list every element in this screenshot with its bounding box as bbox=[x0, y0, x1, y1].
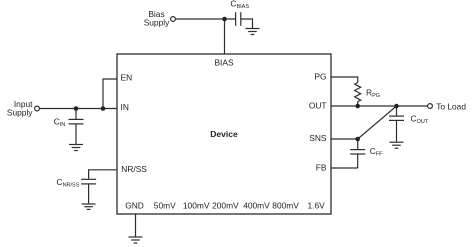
svg-text:IN: IN bbox=[121, 102, 129, 112]
svg-text:200mV: 200mV bbox=[212, 201, 239, 211]
svg-text:50mV: 50mV bbox=[154, 201, 176, 211]
svg-text:To Load: To Load bbox=[436, 101, 466, 111]
svg-text:GND: GND bbox=[125, 201, 144, 211]
svg-text:FB: FB bbox=[316, 162, 327, 172]
svg-text:Supply: Supply bbox=[7, 108, 33, 118]
svg-text:1.6V: 1.6V bbox=[308, 201, 326, 211]
svg-text:NR/SS: NR/SS bbox=[121, 164, 147, 174]
svg-text:BIAS: BIAS bbox=[214, 57, 233, 67]
svg-text:OUT: OUT bbox=[309, 100, 327, 110]
svg-text:Supply: Supply bbox=[144, 17, 170, 27]
svg-text:SNS: SNS bbox=[309, 133, 327, 143]
svg-text:400mV: 400mV bbox=[243, 201, 270, 211]
svg-text:EN: EN bbox=[121, 73, 133, 83]
svg-text:800mV: 800mV bbox=[272, 201, 299, 211]
svg-text:100mV: 100mV bbox=[183, 201, 210, 211]
svg-text:PG: PG bbox=[314, 71, 326, 81]
svg-text:Device: Device bbox=[210, 129, 238, 139]
